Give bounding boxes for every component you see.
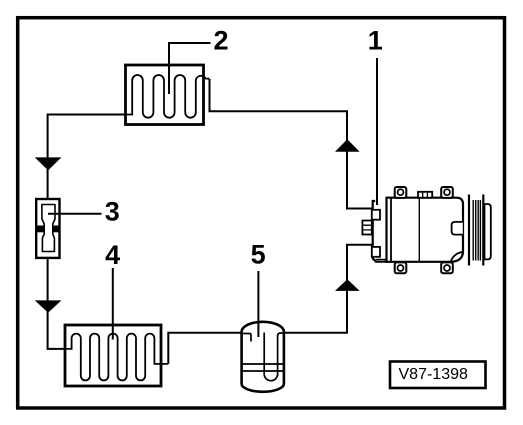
svg-text:3: 3 [105,197,120,227]
restrictor 3: outer body [36,199,59,258]
compressor 1: mounting lug bottom-left [395,262,407,273]
restrictor 3: side seal right (black) [52,226,59,233]
compressor 1: pulley outer plate line [482,195,484,266]
label 1 leader line [376,58,378,205]
compressor 1: right side tab [452,222,463,235]
accumulator 5: body [242,322,284,392]
label 2 leader line [169,43,211,94]
accumulator 5: inlet stub [241,334,251,342]
compressor 1: pulley groove lines [473,200,480,261]
restrictor 3: side seal left (black) [36,226,44,233]
flow arrow down (left pipe, below restrictor) [35,300,62,312]
compressor 1: mounting lug bottom-right [441,262,453,273]
restrictor 3: inner cartridge outline [42,205,55,252]
condenser 2: box [126,65,204,125]
svg-text:4: 4 [105,240,120,270]
compressor 1: bottom-right corner lens mark [451,252,463,261]
wire: condenser outlet jog and top-right pipe down to compressor suction [210,79,373,209]
compressor 1: service fitting ribbed block [362,221,371,235]
flow arrow up (right pipe, top segment) [335,139,360,152]
condenser 2: serpentine coil [124,75,210,118]
evaporator 4: serpentine coil [64,334,169,381]
accumulator 5: liquid level lines [242,364,284,371]
compressor 1: clutch plate line [468,195,470,266]
svg-text:1: 1 [368,26,383,56]
drawing number box V87-1398 [390,362,486,389]
compressor 1: suction port boss [372,210,380,220]
svg-text:V87-1398: V87-1398 [399,366,468,383]
compressor 1: shaft end cap [485,204,491,259]
flow arrow up (right pipe, bottom segment) [335,279,360,291]
compressor 1: body inner left line [390,198,392,262]
compressor 1: mounting lug top-left [395,187,407,198]
wire: evaporator outlet jog and bottom pipe to accumulator [168,333,241,364]
label 5 leader line [257,271,259,337]
compressor 1: left housing edge [372,200,387,261]
compressor 1: discharge port boss [372,247,380,257]
svg-text:2: 2 [213,26,228,56]
svg-text:5: 5 [251,240,266,270]
wire: compressor discharge port down to bottom pipe [285,245,373,333]
wire: left vertical pipe (condenser inlet down to evaporator) [48,115,126,349]
label 4 leader line [112,268,114,340]
compressor 1: top terminal block [418,192,432,198]
accumulator 5: pickup U-tube to outlet [264,333,284,381]
compressor 1: main body [387,198,464,262]
label 3 leader line [48,213,102,215]
flow arrow down (left pipe, above restrictor) [35,157,62,170]
evaporator 4: box [65,325,161,386]
compressor 1: mounting lug top-right [441,187,453,198]
compressor 1: body divider line [418,198,420,262]
compressor 1: left housing inner bottom line [376,258,392,260]
